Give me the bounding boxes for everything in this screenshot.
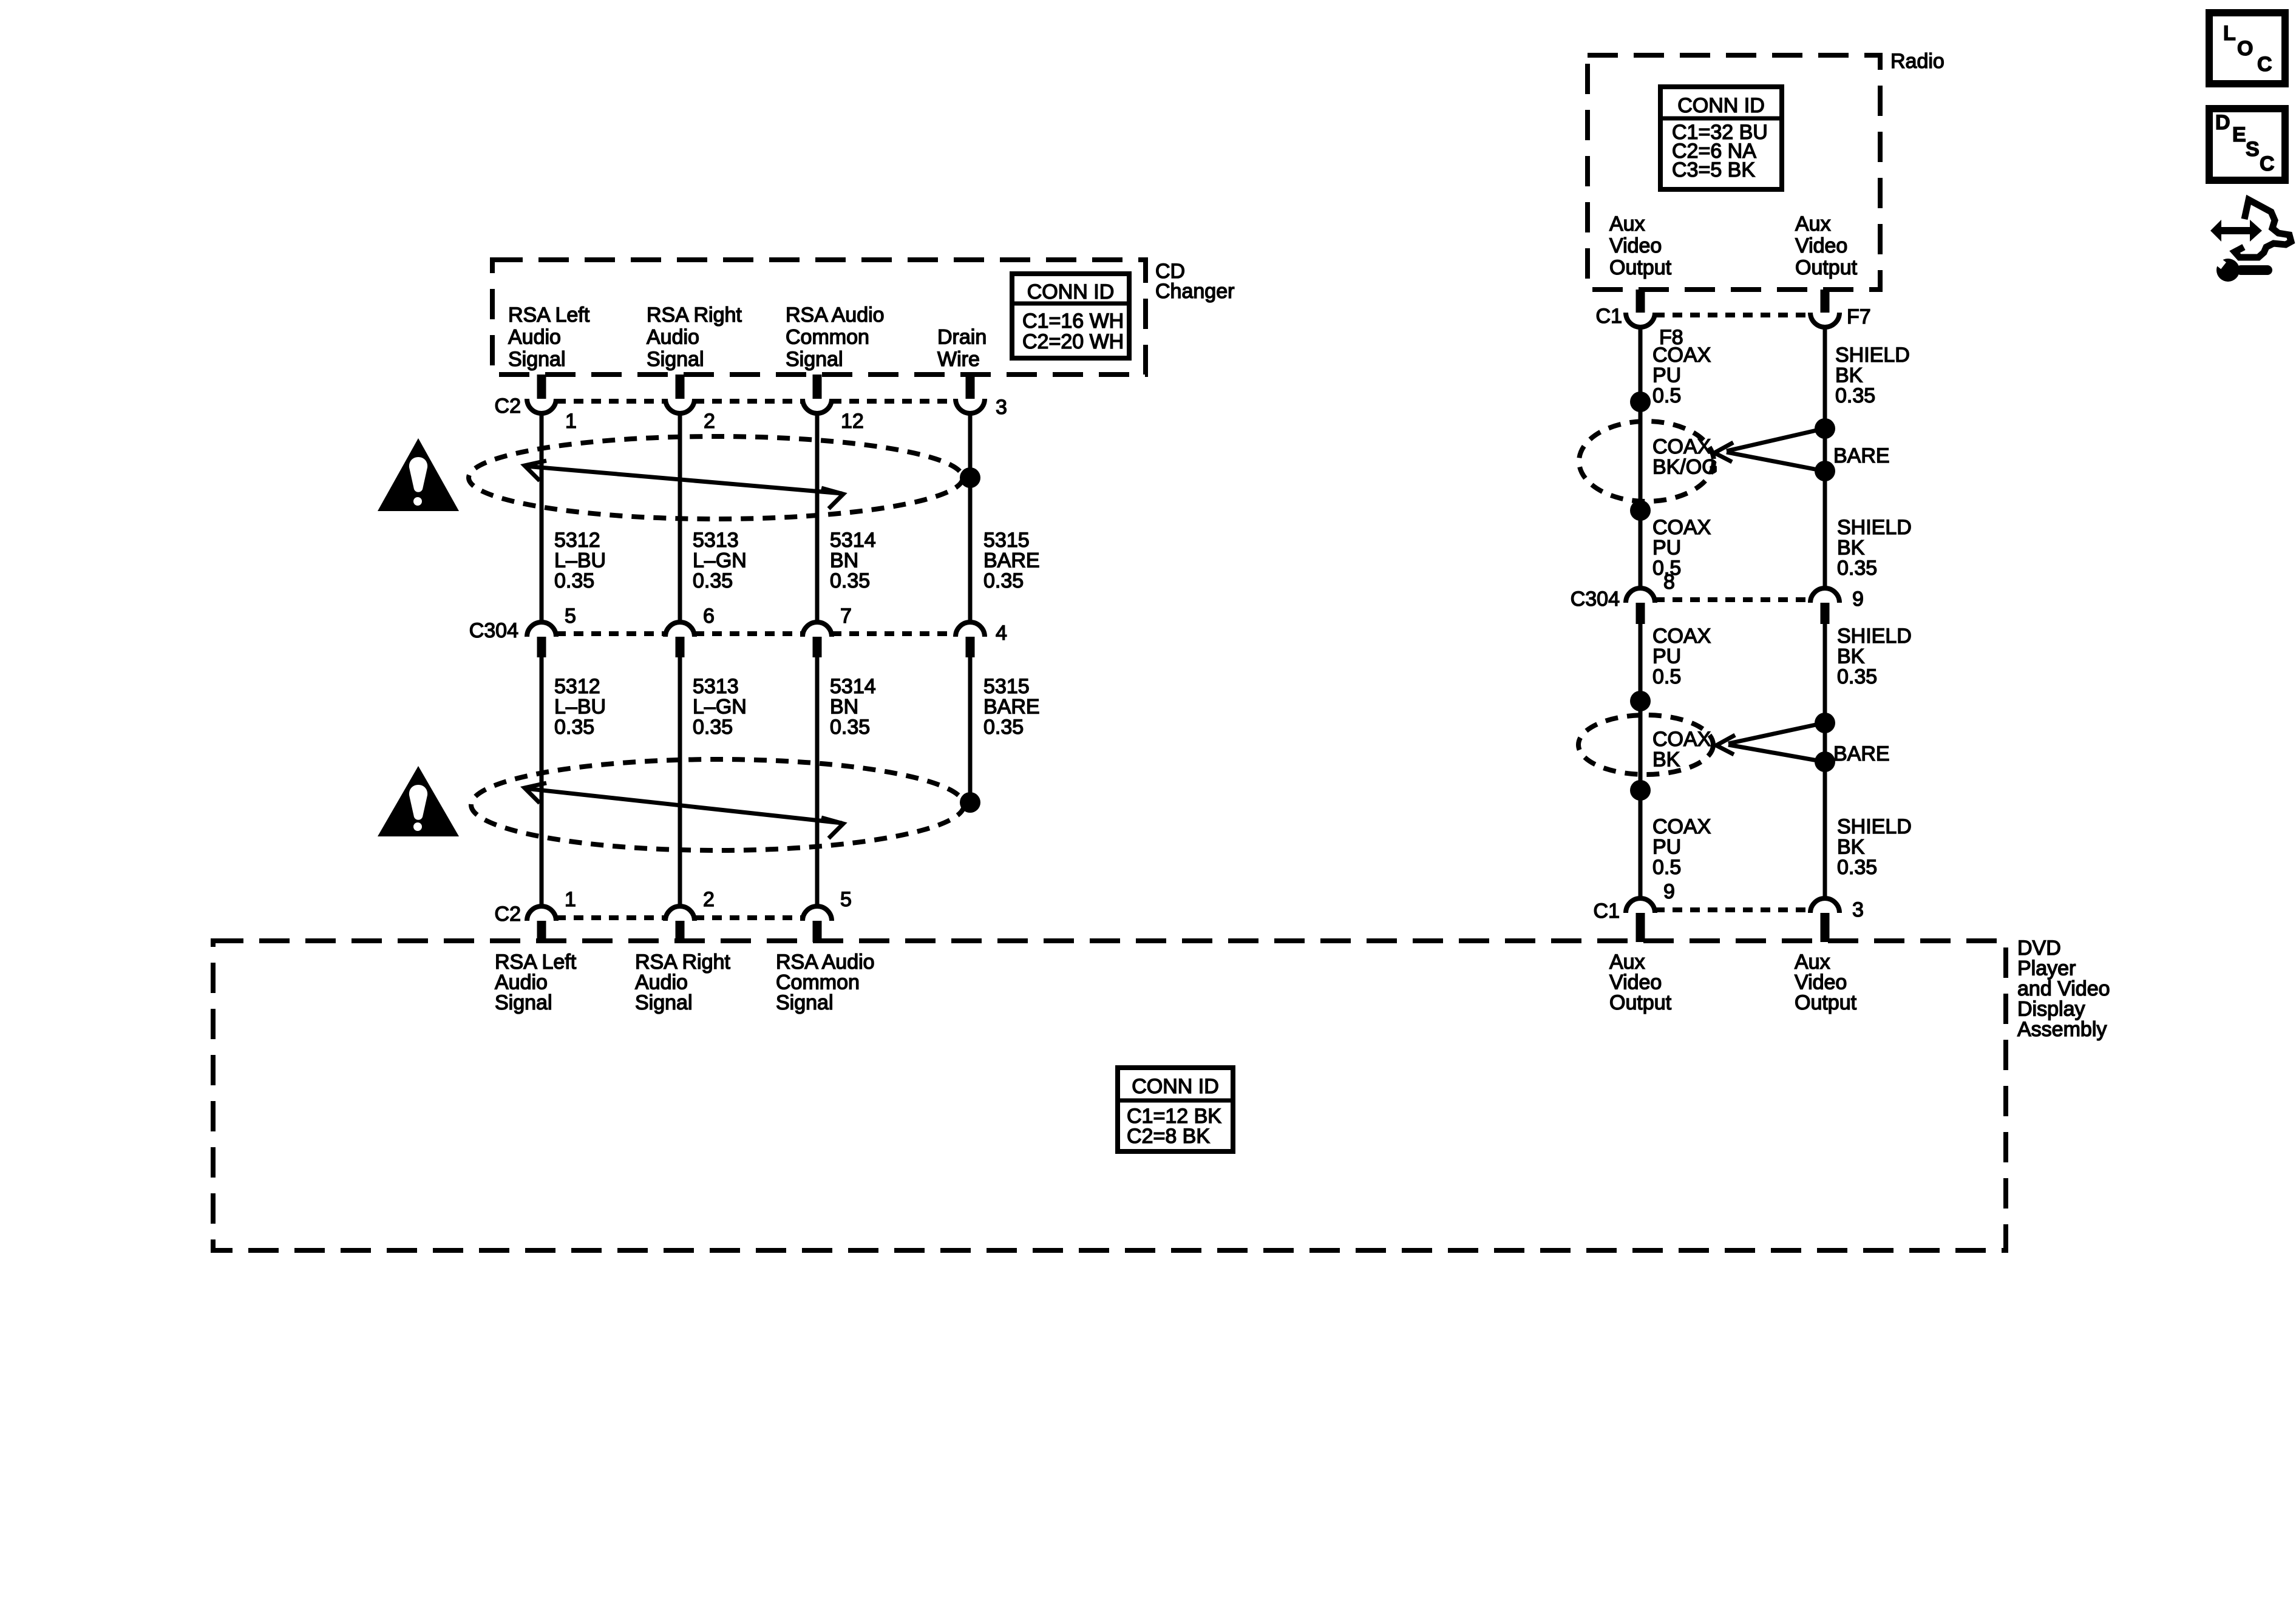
CONN ID table (DVD Player) [1118, 1068, 1233, 1151]
connector C1 pin F8 terminal [1626, 313, 1655, 327]
svg-text:Signal: Signal [647, 348, 704, 371]
svg-text:PU: PU [1652, 537, 1681, 560]
svg-text:0.35: 0.35 [1837, 856, 1877, 879]
svg-text:Signal: Signal [786, 348, 843, 371]
svg-text:RSA Audio: RSA Audio [776, 951, 875, 974]
svg-text:Video: Video [1795, 971, 1847, 994]
svg-text:0.35: 0.35 [830, 716, 870, 739]
svg-text:S: S [2246, 138, 2260, 161]
svg-text:C1: C1 [1596, 305, 1622, 328]
svg-text:PU: PU [1652, 364, 1681, 387]
svg-text:4: 4 [996, 622, 1007, 645]
connector C1 (Radio) dashed line [1655, 313, 1810, 317]
twist arrow 1 [526, 466, 842, 493]
connector C2 pin 3 stub [966, 375, 975, 399]
svg-text:Signal: Signal [635, 991, 693, 1014]
svg-text:0.35: 0.35 [1837, 557, 1877, 580]
svg-text:COAX: COAX [1652, 344, 1711, 367]
connector C304 pin 7 terminal [803, 622, 832, 637]
svg-text:Video: Video [1609, 234, 1662, 257]
svg-text:E: E [2232, 123, 2246, 146]
svg-text:F7: F7 [1847, 305, 1871, 328]
DVD Player and Video Display Assembly box [213, 941, 2006, 1250]
svg-text:Video: Video [1609, 971, 1662, 994]
svg-text:0.5: 0.5 [1652, 384, 1681, 407]
warning triangle 2 [378, 766, 459, 836]
connector C1 (DVD) pin 3 stub [1821, 913, 1830, 942]
wire 5312 upper segment [540, 413, 544, 623]
warning triangle 1 [378, 438, 459, 511]
connector C2 (DVD) pin 1 terminal [527, 906, 556, 921]
svg-text:BN: BN [830, 549, 858, 572]
svg-text:and Video: and Video [2017, 977, 2110, 1000]
svg-text:8: 8 [1663, 571, 1675, 594]
wire 5314 upper segment [815, 413, 820, 623]
svg-text:COAX: COAX [1652, 516, 1711, 539]
svg-text:1: 1 [565, 888, 576, 911]
svg-text:2: 2 [703, 888, 715, 911]
svg-text:C1=16 WH: C1=16 WH [1022, 310, 1124, 333]
junction dot drain-shield 1 [960, 467, 980, 488]
connector C304 pin 8 terminal [1626, 588, 1655, 603]
svg-text:Output: Output [1609, 991, 1672, 1014]
CONN ID table (Radio) [1660, 87, 1782, 189]
svg-text:L–BU: L–BU [554, 696, 606, 719]
connector C2 pin 2 terminal [665, 399, 695, 413]
svg-text:5312: 5312 [554, 529, 600, 552]
twisted pair ellipse 2 [471, 759, 964, 850]
svg-text:7: 7 [840, 605, 852, 628]
svg-text:CONN ID: CONN ID [1677, 94, 1765, 117]
twist arrow 2 [526, 788, 842, 823]
connector C304 dashed line [556, 631, 665, 636]
svg-text:0.35: 0.35 [693, 716, 733, 739]
svg-text:5312: 5312 [554, 675, 600, 698]
svg-text:Signal: Signal [508, 348, 566, 371]
svg-text:PU: PU [1652, 836, 1681, 859]
connector C304 pin 9 stub [1821, 603, 1830, 624]
svg-text:O: O [2237, 37, 2253, 60]
DESC icon box [2209, 109, 2285, 180]
junction dot shield right bottom 1 [1815, 461, 1835, 481]
svg-text:5315: 5315 [983, 675, 1030, 698]
shield ellipse 2 [1578, 715, 1713, 775]
svg-text:3: 3 [1852, 898, 1864, 921]
coax wire upper segment (left) [1639, 327, 1643, 589]
junction dot shield right bottom 2 [1815, 751, 1835, 772]
connector C1 (DVD) pin 9 terminal [1626, 898, 1655, 913]
svg-text:CONN ID: CONN ID [1132, 1075, 1219, 1098]
svg-text:0.35: 0.35 [1837, 665, 1877, 688]
svg-text:C2: C2 [495, 903, 521, 926]
coax wire lower segment (left) [1639, 624, 1643, 899]
svg-text:Changer: Changer [1155, 280, 1234, 303]
svg-text:SHIELD: SHIELD [1837, 625, 1912, 648]
svg-text:BK/OG: BK/OG [1652, 456, 1718, 479]
CONN ID table (CD Changer) [1012, 274, 1129, 358]
svg-text:RSA Left: RSA Left [508, 303, 590, 327]
svg-text:5314: 5314 [830, 529, 876, 552]
Radio box [1588, 55, 1880, 290]
svg-text:Common: Common [786, 326, 869, 349]
wire 5313 lower segment [678, 657, 682, 906]
connector C2 (DVD) pin 5 stub [813, 921, 822, 942]
svg-text:Aux: Aux [1795, 212, 1831, 236]
svg-text:0.35: 0.35 [554, 716, 594, 739]
junction dot drain-shield 2 [960, 792, 980, 813]
svg-text:Wire: Wire [937, 348, 980, 371]
svg-text:5313: 5313 [693, 529, 739, 552]
adjust icon double arrow [2210, 220, 2262, 242]
connector C1 pin F8 stub [1636, 290, 1645, 313]
svg-text:BARE: BARE [1833, 742, 1890, 765]
svg-text:BK: BK [1837, 537, 1865, 560]
svg-text:RSA Right: RSA Right [647, 303, 742, 327]
svg-text:BK: BK [1837, 836, 1865, 859]
connector C2 pin 1 stub [537, 375, 546, 399]
junction dot coax top 2 [1630, 691, 1651, 711]
junction dot coax bottom 1 [1630, 500, 1651, 521]
connector C304 pin 4 terminal [956, 622, 985, 637]
svg-text:3: 3 [996, 396, 1007, 419]
junction dot coax top 1 [1630, 392, 1651, 412]
svg-text:2: 2 [704, 410, 715, 433]
svg-text:COAX: COAX [1652, 625, 1711, 648]
svg-text:Aux: Aux [1609, 951, 1645, 974]
shield wire upper segment (right) [1823, 327, 1827, 589]
connector C1 (DVD) pin 9 stub [1636, 913, 1645, 942]
svg-text:Radio: Radio [1890, 50, 1944, 73]
svg-text:C3=5 BK: C3=5 BK [1672, 158, 1755, 181]
svg-text:Drain: Drain [937, 326, 987, 349]
svg-text:Common: Common [776, 971, 860, 994]
svg-text:L–BU: L–BU [554, 549, 606, 572]
svg-text:C1: C1 [1594, 900, 1620, 923]
svg-text:Signal: Signal [776, 991, 834, 1014]
svg-text:Signal: Signal [495, 991, 552, 1014]
svg-text:Display: Display [2017, 998, 2085, 1021]
svg-text:Aux: Aux [1609, 212, 1645, 236]
svg-text:Video: Video [1795, 234, 1847, 257]
wire 5312 lower segment [540, 657, 544, 906]
connector C2 pin 1 terminal [527, 399, 556, 413]
svg-text:RSA Left: RSA Left [495, 951, 577, 974]
svg-text:0.35: 0.35 [693, 569, 733, 592]
connector C304 pin 4 stub [966, 637, 975, 657]
junction dot shield right top 2 [1815, 713, 1835, 733]
svg-text:DVD: DVD [2017, 937, 2061, 960]
svg-text:RSA Right: RSA Right [635, 951, 730, 974]
connector C304 (right) dashed line [1655, 597, 1810, 602]
connector C2 (DVD) pin 1 stub [537, 921, 546, 942]
connector C304 pin 8 stub [1636, 603, 1645, 624]
connector C2 pin 12 stub [813, 375, 822, 399]
junction dot coax bottom 2 [1630, 780, 1651, 801]
svg-text:L–GN: L–GN [693, 696, 747, 719]
svg-text:Audio: Audio [508, 326, 561, 349]
CD Changer box [492, 260, 1146, 375]
svg-text:C2=8 BK: C2=8 BK [1127, 1125, 1210, 1148]
wire 5315 upper segment [968, 413, 973, 623]
connector C1 pin F7 stub [1821, 290, 1830, 313]
connector C304 pin 5 terminal [527, 622, 556, 637]
svg-text:1: 1 [565, 410, 577, 433]
svg-text:BARE: BARE [983, 549, 1040, 572]
connector C2 (DVD) pin 2 terminal [665, 906, 695, 921]
LOC icon box [2209, 13, 2285, 84]
adjust icon wrench [2216, 259, 2240, 282]
svg-text:0.35: 0.35 [554, 569, 594, 592]
svg-text:Audio: Audio [647, 326, 699, 349]
svg-text:SHIELD: SHIELD [1837, 516, 1912, 539]
connector C2 pin 12 terminal [803, 399, 832, 413]
svg-text:5314: 5314 [830, 675, 876, 698]
svg-text:0.35: 0.35 [983, 716, 1024, 739]
svg-text:0.5: 0.5 [1652, 856, 1681, 879]
svg-text:0.35: 0.35 [1835, 384, 1875, 407]
connector C1 (DVD) dashed line [1655, 907, 1810, 912]
svg-text:6: 6 [703, 605, 715, 628]
junction dot shield right top 1 [1815, 418, 1835, 439]
connector C304 pin 9 terminal [1810, 588, 1839, 603]
svg-text:5: 5 [840, 888, 852, 911]
svg-text:Assembly: Assembly [2017, 1018, 2107, 1041]
connector C304 pin 5 stub [537, 637, 546, 657]
svg-text:C: C [2260, 152, 2275, 175]
connector C2 (CD Changer) dashed line [556, 399, 665, 404]
svg-text:SHIELD: SHIELD [1837, 815, 1912, 838]
adjust icon hand outline [2235, 200, 2291, 257]
svg-text:BARE: BARE [983, 696, 1040, 719]
svg-text:C2: C2 [495, 395, 521, 418]
connector C2 (DVD) pin 5 terminal [803, 906, 832, 921]
twisted pair ellipse 1 [469, 436, 963, 519]
svg-text:BN: BN [830, 696, 858, 719]
svg-text:COAX: COAX [1652, 815, 1711, 838]
connector C2 pin 2 stub [676, 375, 685, 399]
svg-text:5315: 5315 [983, 529, 1030, 552]
svg-text:Output: Output [1609, 256, 1672, 279]
svg-text:BARE: BARE [1833, 444, 1890, 467]
svg-text:5313: 5313 [693, 675, 739, 698]
svg-text:Output: Output [1795, 256, 1858, 279]
svg-text:C2=20 WH: C2=20 WH [1022, 330, 1124, 353]
svg-text:L–GN: L–GN [693, 549, 747, 572]
svg-text:COAX: COAX [1652, 435, 1711, 458]
svg-text:BK: BK [1652, 748, 1680, 771]
svg-text:BK: BK [1837, 645, 1865, 668]
shield tie lines 1 [1727, 429, 1824, 451]
svg-text:12: 12 [841, 410, 864, 433]
connector C2 pin 3 terminal [956, 399, 985, 413]
svg-text:C: C [2257, 53, 2272, 76]
svg-text:RSA Audio: RSA Audio [786, 303, 885, 327]
svg-text:0.35: 0.35 [983, 569, 1024, 592]
svg-text:Audio: Audio [495, 971, 548, 994]
svg-text:Audio: Audio [635, 971, 688, 994]
connector C1 pin F7 terminal [1810, 313, 1839, 327]
shield wire lower segment (right) [1823, 624, 1827, 899]
wire 5313 upper segment [678, 413, 682, 623]
wire 5314 lower segment [815, 657, 820, 906]
svg-text:PU: PU [1652, 645, 1681, 668]
svg-text:0.35: 0.35 [830, 569, 870, 592]
connector C2 (DVD) pin 2 stub [676, 921, 685, 942]
shield ellipse 1 [1579, 421, 1714, 501]
wire 5315 lower segment [968, 657, 973, 802]
svg-text:SHIELD: SHIELD [1835, 344, 1910, 367]
svg-text:D: D [2215, 111, 2230, 134]
svg-text:C304: C304 [1571, 588, 1620, 611]
svg-text:5: 5 [565, 605, 576, 628]
svg-text:C304: C304 [469, 619, 518, 642]
svg-text:COAX: COAX [1652, 728, 1711, 751]
connector C304 pin 7 stub [813, 637, 822, 657]
connector C304 pin 6 terminal [665, 622, 695, 637]
svg-text:Player: Player [2017, 957, 2076, 980]
svg-text:BK: BK [1835, 364, 1863, 387]
connector C1 (DVD) pin 3 terminal [1810, 898, 1839, 913]
connector C304 pin 6 stub [676, 637, 685, 657]
svg-text:9: 9 [1852, 588, 1864, 611]
svg-text:0.5: 0.5 [1652, 665, 1681, 688]
shield tie lines 2 [1728, 723, 1824, 744]
svg-text:CONN ID: CONN ID [1027, 280, 1115, 303]
svg-text:9: 9 [1663, 880, 1675, 903]
connector C2 (DVD) dashed line [556, 915, 665, 920]
svg-text:Output: Output [1795, 991, 1857, 1014]
svg-text:L: L [2223, 22, 2236, 45]
svg-text:Aux: Aux [1795, 951, 1830, 974]
